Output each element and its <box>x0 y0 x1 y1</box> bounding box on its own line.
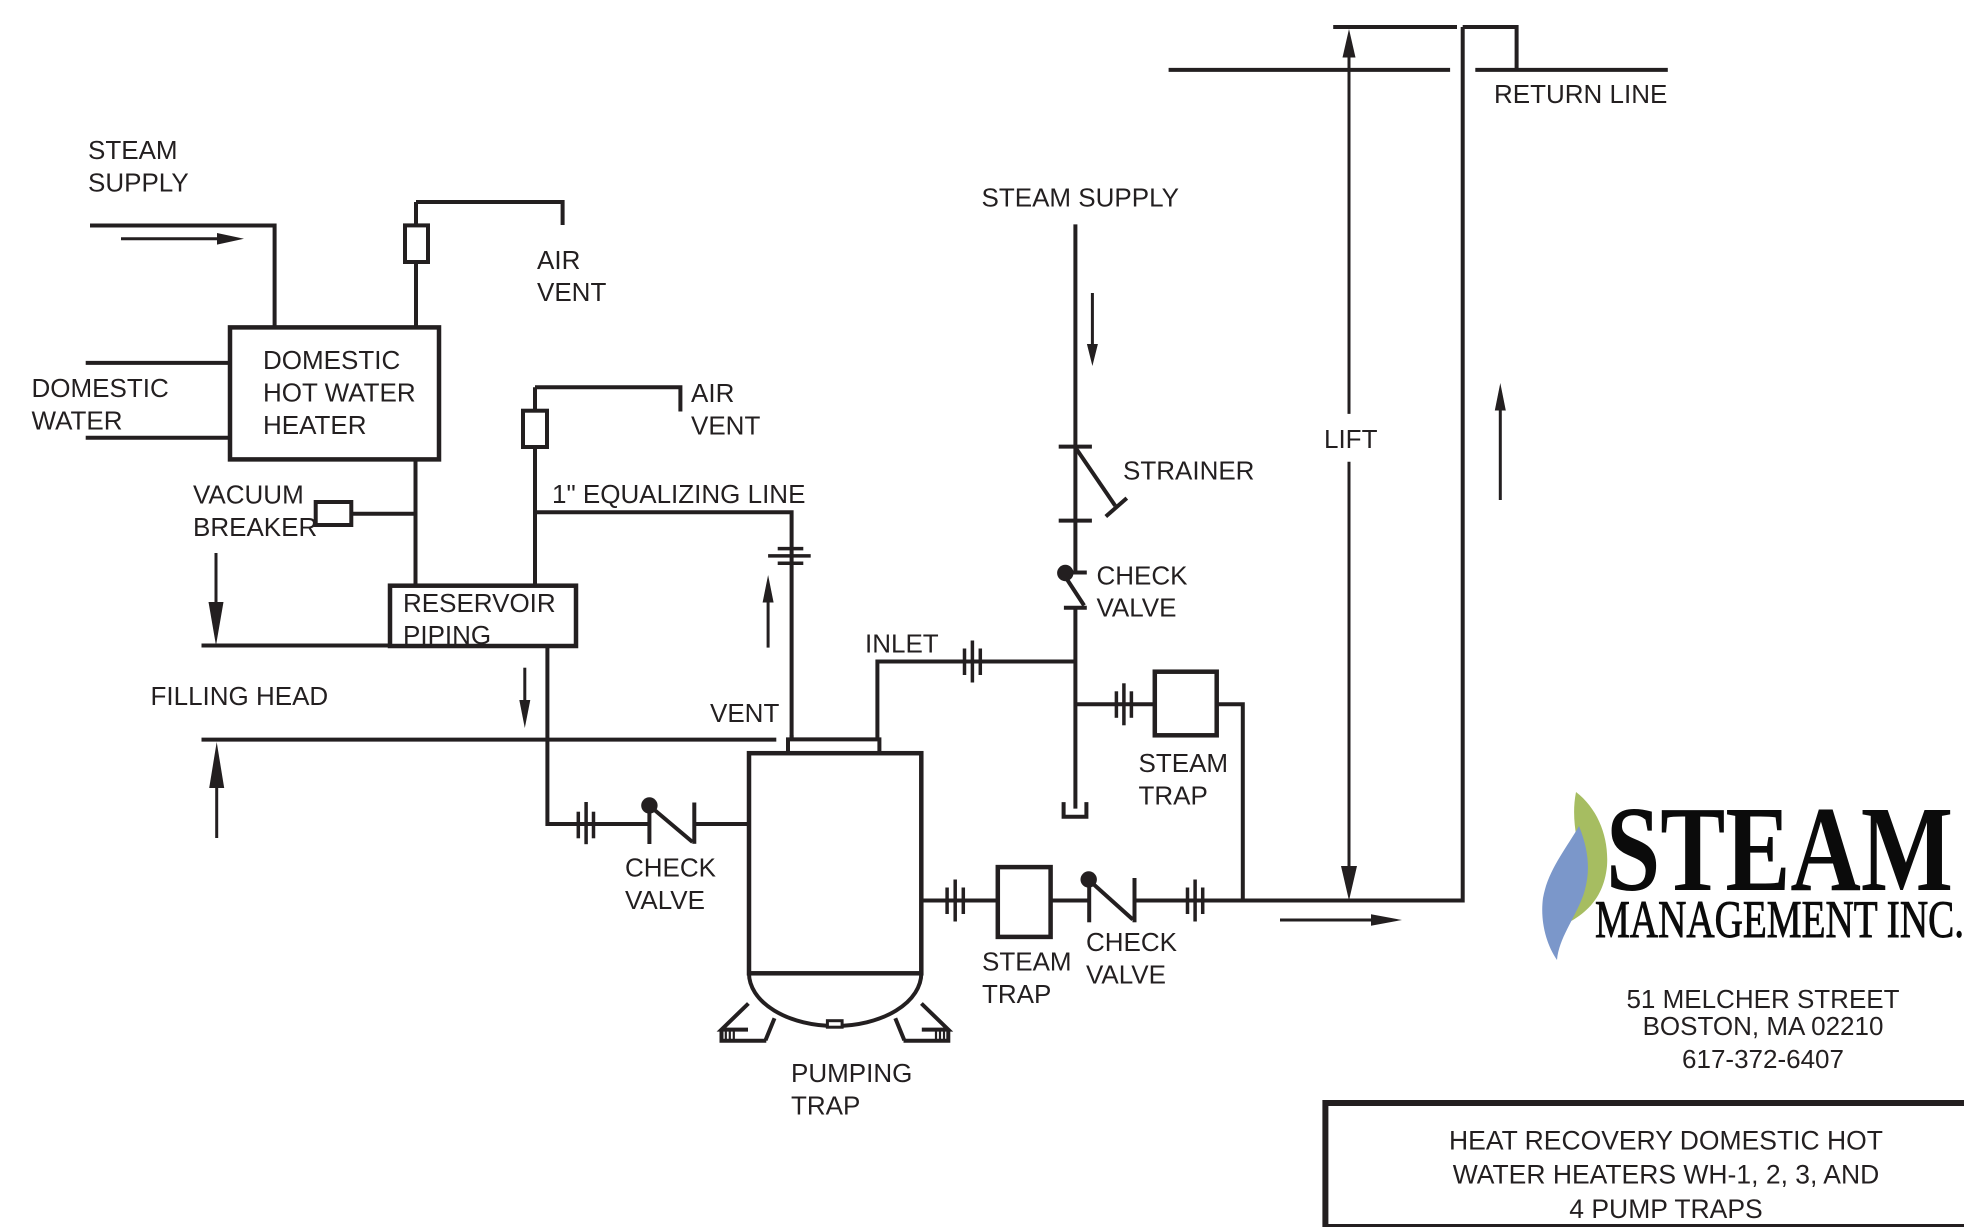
pipe: vacuum breaker connector <box>351 512 415 516</box>
title block: bottom border <box>1325 1224 1964 1227</box>
svg-text:STEAM SUPPLY: STEAM SUPPLY <box>982 183 1179 213</box>
svg-text:AIR: AIR <box>691 378 734 408</box>
svg-text:SUPPLY: SUPPLY <box>88 168 189 198</box>
union: pumping trap inlet line <box>578 802 593 844</box>
svg-text:VENT: VENT <box>691 411 760 441</box>
arrow: down into filling head line <box>519 668 530 728</box>
svg-text:DOMESTIC: DOMESTIC <box>263 345 400 375</box>
title block: left border <box>1322 1100 1328 1227</box>
strainer: end cross tick <box>1106 498 1127 516</box>
union: discharge line <box>1188 880 1203 922</box>
pipe: inlet line <box>877 662 1075 740</box>
svg-text:HOT WATER: HOT WATER <box>263 378 416 408</box>
pipe: domestic water lower line <box>86 436 230 440</box>
svg-text:DOMESTIC: DOMESTIC <box>32 373 169 403</box>
svg-text:STRAINER: STRAINER <box>1123 456 1254 486</box>
pipe: heater outlet drop to reservoir <box>414 460 418 586</box>
arrow: filling head up arrow <box>209 742 224 838</box>
pipe: air vent 2 riser <box>533 387 537 585</box>
component: pumping trap collar <box>786 739 881 753</box>
flow arrow: steam supply into heater <box>121 233 244 245</box>
line: reservoir level mark <box>202 644 389 648</box>
svg-text:VALVE: VALVE <box>1086 960 1166 990</box>
svg-text:BOSTON, MA 02210: BOSTON, MA 02210 <box>1643 1011 1884 1041</box>
svg-text:1" EQUALIZING LINE: 1" EQUALIZING LINE <box>552 479 805 509</box>
svg-text:617-372-6407: 617-372-6407 <box>1682 1044 1844 1074</box>
logo: flame green leaf <box>1566 792 1607 924</box>
svg-text:RETURN LINE: RETURN LINE <box>1494 79 1667 109</box>
svg-text:CHECK: CHECK <box>1086 927 1178 957</box>
union: steam trap 2 inlet <box>1116 683 1131 725</box>
svg-text:AIR: AIR <box>537 245 580 275</box>
pipe: steam supply riser (middle) upper part <box>1073 224 1077 572</box>
component: air vent 2 body <box>523 411 547 447</box>
component: vacuum breaker box <box>316 502 352 525</box>
svg-text:BREAKER: BREAKER <box>193 512 317 542</box>
pipe: steam supply riser lower part <box>1073 609 1077 808</box>
svg-text:STEAM: STEAM <box>982 947 1072 977</box>
component: pumping trap drain nub <box>827 1021 842 1027</box>
component: domestic hot water heater box <box>230 327 439 459</box>
component: open pipe end cup <box>1064 802 1087 817</box>
dimension: LIFT extension top line <box>1333 25 1457 29</box>
pipe: 1 inch equalizing line <box>535 512 792 739</box>
component: pumping trap bottom dome <box>749 973 921 1026</box>
arrow: down steam flow <box>1087 293 1098 366</box>
pipe: return line riser <box>1461 27 1465 903</box>
svg-text:INLET: INLET <box>865 629 939 659</box>
pipe: steam trap 2 outlet <box>1217 704 1243 900</box>
check valve CV1 (trap inlet) <box>641 797 694 844</box>
svg-text:VENT: VENT <box>537 277 606 307</box>
pipe: air vent 1 riser upper <box>414 202 418 225</box>
strainer: upper tick <box>1059 445 1092 449</box>
pipe: domestic water upper line <box>86 361 230 365</box>
check valve CV3 (discharge) <box>1081 871 1135 922</box>
svg-text:HEATER: HEATER <box>263 410 367 440</box>
svg-text:STEAM: STEAM <box>1139 748 1229 778</box>
component: reservoir piping box <box>390 586 576 646</box>
component: pumping trap body <box>749 753 921 973</box>
strainer: diagonal screen <box>1077 449 1116 506</box>
svg-text:VENT: VENT <box>710 698 779 728</box>
pipe: steam supply inlet (top left) <box>90 226 275 328</box>
svg-text:HEAT RECOVERY DOMESTIC HOT: HEAT RECOVERY DOMESTIC HOT <box>1449 1126 1883 1156</box>
pipe: condensate discharge line <box>921 899 1462 903</box>
pipe: equalizing drop into collar <box>790 735 794 739</box>
title block: top border <box>1323 1100 1964 1106</box>
pipe: branch to steam trap 2 <box>1075 702 1154 706</box>
svg-text:51 MELCHER STREET: 51 MELCHER STREET <box>1626 984 1899 1014</box>
svg-text:WATER HEATERS WH-1, 2, 3, AND: WATER HEATERS WH-1, 2, 3, AND <box>1453 1160 1880 1190</box>
line: level B left segment <box>1169 68 1451 72</box>
svg-text:CHECK: CHECK <box>1097 561 1189 591</box>
svg-text:FILLING HEAD: FILLING HEAD <box>151 681 329 711</box>
svg-text:VALVE: VALVE <box>625 885 705 915</box>
svg-text:RESERVOIR: RESERVOIR <box>403 588 556 618</box>
pipe: reservoir outlet drop and run to pumping trap <box>547 646 749 824</box>
pipe: air vent 1 hook <box>416 202 563 225</box>
svg-text:CHECK: CHECK <box>625 853 717 883</box>
svg-text:VACUUM: VACUUM <box>193 480 304 510</box>
arrow: up flow in return riser <box>1495 383 1506 500</box>
svg-text:LIFT: LIFT <box>1324 424 1378 454</box>
svg-text:PUMPING: PUMPING <box>791 1058 912 1088</box>
component: steam trap 2 box <box>1155 672 1217 736</box>
component: air vent 1 body <box>405 225 428 262</box>
dimension: LIFT line lower segment with down arrowhead <box>1341 462 1357 901</box>
svg-text:WATER: WATER <box>32 406 123 436</box>
hatch: left foot <box>726 1030 734 1041</box>
svg-text:MANAGEMENT INC.: MANAGEMENT INC. <box>1595 891 1964 949</box>
svg-text:TRAP: TRAP <box>791 1091 860 1121</box>
union: equalizing line drop <box>768 549 811 564</box>
line: level B right segment <box>1475 68 1668 72</box>
component: pumping trap left leg <box>722 1004 775 1041</box>
svg-text:4 PUMP TRAPS: 4 PUMP TRAPS <box>1569 1194 1762 1224</box>
arrow: down to reservoir level <box>209 553 224 646</box>
arrow: up flow on equalizing drop <box>763 575 774 648</box>
union: inlet line <box>965 641 981 683</box>
flow arrow: discharge to return <box>1280 914 1402 926</box>
component: steam trap 1 box <box>998 867 1051 937</box>
pipe: air vent 1 riser <box>414 262 418 327</box>
pipe: air vent 2 hook <box>535 387 680 411</box>
check valve CV2 (vertical) <box>1057 565 1087 608</box>
svg-text:TRAP: TRAP <box>1139 781 1208 811</box>
line: filling head level (vent line) <box>202 738 777 742</box>
logo: flame blue drop <box>1542 826 1588 960</box>
svg-text:VALVE: VALVE <box>1097 593 1177 623</box>
svg-text:TRAP: TRAP <box>982 979 1051 1009</box>
pipe: return line top hook <box>1463 27 1517 70</box>
component: pumping trap right leg <box>895 1004 948 1041</box>
svg-text:STEAM: STEAM <box>88 135 178 165</box>
svg-text:PIPING: PIPING <box>403 620 491 650</box>
dimension: LIFT line upper segment with up arrowhead <box>1343 29 1356 414</box>
union: pumping trap outlet <box>947 880 963 922</box>
strainer: lower tick <box>1059 519 1092 523</box>
hatch: right foot <box>936 1030 944 1041</box>
